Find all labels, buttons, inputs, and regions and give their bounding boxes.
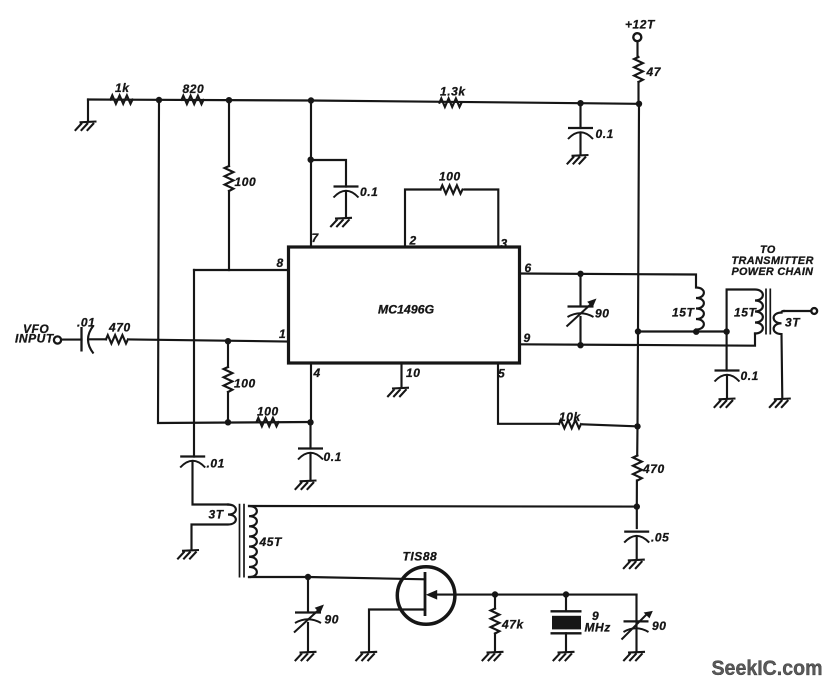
svg-text:9: 9 bbox=[524, 331, 531, 345]
svg-text:10: 10 bbox=[406, 366, 420, 380]
svg-text:90: 90 bbox=[595, 307, 609, 321]
svg-text:.01: .01 bbox=[77, 316, 95, 330]
svg-text:3T: 3T bbox=[785, 316, 801, 330]
svg-text:100: 100 bbox=[234, 377, 256, 391]
svg-text:45T: 45T bbox=[259, 535, 283, 549]
svg-text:1: 1 bbox=[279, 327, 286, 341]
svg-text:0.1: 0.1 bbox=[324, 450, 342, 464]
svg-text:15T: 15T bbox=[672, 306, 695, 320]
svg-text:SeekIC.com: SeekIC.com bbox=[712, 656, 823, 680]
svg-text:POWER CHAIN: POWER CHAIN bbox=[732, 266, 814, 278]
svg-text:2: 2 bbox=[409, 234, 417, 248]
svg-text:MHz: MHz bbox=[585, 620, 611, 634]
svg-text:MC1496G: MC1496G bbox=[378, 303, 435, 317]
svg-text:10k: 10k bbox=[559, 410, 581, 424]
svg-text:470: 470 bbox=[108, 321, 131, 335]
svg-text:3: 3 bbox=[501, 237, 508, 251]
svg-text:.01: .01 bbox=[207, 457, 225, 471]
svg-text:470: 470 bbox=[642, 462, 665, 476]
svg-text:3T: 3T bbox=[209, 508, 225, 522]
svg-text:90: 90 bbox=[652, 619, 666, 633]
svg-text:4: 4 bbox=[313, 366, 321, 380]
svg-text:.05: .05 bbox=[651, 530, 669, 544]
svg-text:47k: 47k bbox=[501, 618, 524, 632]
svg-text:1.3k: 1.3k bbox=[440, 85, 466, 99]
svg-text:8: 8 bbox=[277, 256, 284, 270]
svg-text:INPUT: INPUT bbox=[15, 332, 55, 346]
svg-text:1k: 1k bbox=[115, 81, 130, 95]
svg-text:0.1: 0.1 bbox=[741, 369, 759, 383]
svg-text:7: 7 bbox=[312, 231, 320, 245]
svg-text:100: 100 bbox=[257, 405, 279, 419]
svg-text:90: 90 bbox=[325, 613, 339, 627]
svg-text:5: 5 bbox=[498, 367, 505, 381]
svg-text:+12T: +12T bbox=[625, 18, 656, 32]
svg-text:TIS88: TIS88 bbox=[403, 550, 438, 564]
svg-text:6: 6 bbox=[525, 261, 532, 275]
svg-text:47: 47 bbox=[646, 65, 662, 79]
svg-text:15T: 15T bbox=[734, 306, 757, 320]
svg-text:820: 820 bbox=[183, 82, 205, 96]
svg-text:0.1: 0.1 bbox=[360, 185, 378, 199]
svg-text:0.1: 0.1 bbox=[596, 127, 614, 141]
svg-text:100: 100 bbox=[439, 170, 461, 184]
svg-text:100: 100 bbox=[235, 175, 257, 189]
